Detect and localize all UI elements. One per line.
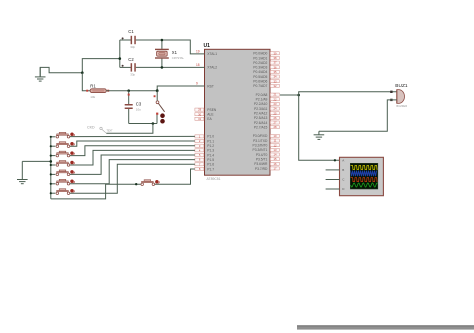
push button key 8 <box>141 180 160 186</box>
svg-text:ALE: ALE <box>207 113 214 117</box>
node bus junction row 7 <box>50 192 52 194</box>
wire button 3 to P1.2 staircase <box>70 146 195 156</box>
svg-text:R1: R1 <box>90 83 96 88</box>
ground GND3 <box>314 131 325 139</box>
wire C3 bottom to switch bottom <box>129 123 157 125</box>
svg-text:XTAL2: XTAL2 <box>207 66 217 70</box>
wire button 7 to P1.6 staircase <box>70 164 195 193</box>
pin P2.1/A9 (pin 22) <box>256 98 268 102</box>
pin P3.1/TXD (pin 11) <box>253 139 268 143</box>
svg-text:14: 14 <box>274 153 277 157</box>
pin P1.4 (pin 5) <box>207 153 214 157</box>
svg-text:10k: 10k <box>90 95 95 99</box>
svg-text:P1.1: P1.1 <box>207 139 214 143</box>
node crystal top junction <box>161 39 164 42</box>
pin P1.1 (pin 2) <box>207 139 214 143</box>
svg-text:33p: 33p <box>130 73 135 77</box>
svg-text:P2.5/A13: P2.5/A13 <box>254 116 268 120</box>
wire rail down to R1 <box>82 73 90 91</box>
wire bus to button 4 left terminal <box>51 164 56 166</box>
scrollbar bottom gray bar <box>297 325 474 329</box>
pin P0.4/AD4 (pin 35) <box>253 70 267 74</box>
svg-text:9: 9 <box>196 81 198 85</box>
push button key 6 <box>56 179 75 185</box>
svg-text:P0.2/AD2: P0.2/AD2 <box>253 61 267 65</box>
wire extra button to P1.7 <box>155 169 195 184</box>
svg-text:TEXT: TEXT <box>107 130 114 133</box>
capacitor C1 <box>120 36 136 44</box>
pin P2.5/A13 (pin 26) <box>254 116 268 120</box>
crystal X1 <box>155 40 169 67</box>
node switch tap on reset wire <box>156 89 159 92</box>
pin P3.7/RD (pin 17) <box>255 167 268 171</box>
node buzzer-scope junction <box>297 94 300 97</box>
svg-text:31: 31 <box>198 117 201 121</box>
waveform channel C red square <box>351 178 378 182</box>
waveform channel D green sine <box>351 183 378 187</box>
svg-text:33: 33 <box>274 79 277 83</box>
svg-text:C3: C3 <box>136 101 142 106</box>
svg-text:39: 39 <box>274 51 277 55</box>
node rail T-junction <box>81 71 84 74</box>
node C3 tap on reset wire <box>127 89 130 92</box>
pin P3.2/INT0 (pin 12) <box>253 144 268 148</box>
node crystal bottom junction <box>161 66 164 69</box>
pin P2.4/A12 (pin 25) <box>254 112 268 116</box>
switch SW reset <box>154 91 165 124</box>
pin RST (pin 9) <box>196 81 214 88</box>
pin P3.6/WR (pin 16) <box>254 162 268 166</box>
wire bus to button 2 left terminal <box>51 145 56 147</box>
svg-text:22: 22 <box>274 97 277 101</box>
push button key 1 <box>56 132 75 138</box>
node extra button left junction <box>135 183 137 185</box>
wire button 1 to P1.0 <box>70 135 195 137</box>
wire button 2 to P1.1 staircase <box>70 141 195 146</box>
svg-text:P0.7/AD7: P0.7/AD7 <box>253 84 267 88</box>
svg-text:P2.2/A10: P2.2/A10 <box>254 102 268 106</box>
svg-text:P2.1/A9: P2.1/A9 <box>256 98 268 102</box>
node bus junction row 6 <box>50 183 52 185</box>
wire reset node step up to RST pin <box>157 86 204 91</box>
wire bus to button 1 left terminal <box>51 136 56 138</box>
pin P0.1/AD1 (pin 38) <box>253 56 267 60</box>
svg-text:33p: 33p <box>130 45 135 49</box>
svg-text:18: 18 <box>196 63 200 67</box>
svg-text:U1: U1 <box>204 43 211 49</box>
svg-text:P2.0/A8: P2.0/A8 <box>256 93 268 97</box>
node bus junction row 4 <box>50 164 52 166</box>
wire keypad ground bus vertical <box>50 137 52 199</box>
svg-text:35: 35 <box>274 70 277 74</box>
pin scope channel D <box>326 188 340 190</box>
pin P3.4/T0 (pin 14) <box>256 153 268 157</box>
svg-text:P1.5: P1.5 <box>207 158 214 162</box>
svg-text:AT89C51: AT89C51 <box>207 177 221 181</box>
capacitor C2 <box>120 63 136 71</box>
wire bus to button 6 left terminal <box>51 183 56 185</box>
svg-text:10: 10 <box>274 134 277 138</box>
svg-text:32: 32 <box>274 84 277 88</box>
svg-text:P3.5/T1: P3.5/T1 <box>256 157 268 161</box>
pin P1.0 (pin 1) <box>207 135 214 139</box>
oscilloscope screen <box>350 163 378 189</box>
wire bus to button 5 left terminal <box>51 173 56 175</box>
node CKD terminal and label <box>87 126 113 134</box>
oscilloscope body <box>340 157 384 195</box>
svg-text:P1.0: P1.0 <box>207 135 214 139</box>
pin P2.0/A8 (pin 21) <box>256 93 268 97</box>
svg-text:29: 29 <box>198 108 201 112</box>
svg-text:25: 25 <box>274 111 277 115</box>
push button key 2 <box>56 142 75 148</box>
pin P1.7 (pin 8) <box>207 167 214 171</box>
svg-text:19: 19 <box>196 49 200 53</box>
push button key 3 <box>56 151 75 157</box>
svg-text:13: 13 <box>274 148 277 152</box>
svg-text:27: 27 <box>274 121 277 125</box>
pin P2.2/A10 (pin 23) <box>254 102 268 106</box>
wire bus to button 7 left terminal <box>51 192 56 194</box>
pin P3.0/RXD (pin 10) <box>253 134 268 138</box>
svg-text:PSEN: PSEN <box>207 108 217 112</box>
buzzer BUZ1 <box>390 90 404 104</box>
svg-text:BUZZER: BUZZER <box>396 104 407 108</box>
svg-text:P3.6/WR: P3.6/WR <box>254 162 268 166</box>
wire junction up and right to buzzer <box>299 92 397 95</box>
svg-text:P3.1/TXD: P3.1/TXD <box>253 139 268 143</box>
svg-text:CKD: CKD <box>87 126 95 130</box>
node rail-caps junction <box>119 57 122 60</box>
pin P0.6/AD6 (pin 33) <box>253 80 267 84</box>
svg-text:P2.7/A15: P2.7/A15 <box>254 125 268 129</box>
svg-text:21: 21 <box>274 93 277 97</box>
svg-text:30: 30 <box>198 112 201 116</box>
node bus junction row 2 <box>50 145 52 147</box>
pin P0.3/AD3 (pin 36) <box>253 66 267 70</box>
node scope A pin dot <box>334 159 336 161</box>
push button key 5 <box>56 170 75 176</box>
pin P1.5 (pin 6) <box>207 158 214 162</box>
ground GND1 <box>35 67 46 81</box>
wire bus to button 3 left terminal <box>51 155 56 157</box>
pin P3.5/T1 (pin 15) <box>256 157 268 161</box>
waveform channel A yellow square <box>351 166 378 170</box>
pin P1.6 (pin 7) <box>207 163 214 167</box>
node CKD branch junction <box>152 122 155 125</box>
pin PSEN (pin 29) <box>207 108 217 112</box>
svg-text:P3.2/INT0: P3.2/INT0 <box>253 144 268 148</box>
svg-text:A: A <box>342 159 344 163</box>
svg-text:10u: 10u <box>136 108 141 112</box>
pin EA (pin 31) <box>207 117 212 121</box>
pin scope channel B <box>326 169 340 171</box>
svg-text:16: 16 <box>274 162 277 166</box>
wire button 5 to P1.4 staircase <box>70 155 195 174</box>
pin P0.5/AD5 (pin 34) <box>253 75 267 79</box>
wire keypad ground tap <box>22 160 51 162</box>
svg-text:P3.4/T0: P3.4/T0 <box>256 153 268 157</box>
svg-text:P0.0/AD0: P0.0/AD0 <box>253 52 267 56</box>
svg-text:15: 15 <box>274 157 277 161</box>
capacitor C3 <box>125 91 133 124</box>
node bus junction row 3 <box>50 155 52 157</box>
node ground tap junction <box>50 160 53 163</box>
wire left vertical joining C1 and C2 <box>119 40 121 67</box>
ground symbol keypad with stem <box>21 161 23 170</box>
svg-text:34: 34 <box>274 75 277 79</box>
wire CKD label to reset-capacitor node <box>106 124 152 134</box>
svg-text:P3.0/RXD: P3.0/RXD <box>253 134 268 138</box>
push button key 7 <box>56 189 75 195</box>
svg-text:24: 24 <box>274 107 277 111</box>
pin XTAL2 (pin 18) <box>196 63 217 70</box>
pin P2.3/A11 (pin 24) <box>254 107 267 111</box>
svg-text:P1.4: P1.4 <box>207 153 214 157</box>
svg-text:P3.7/RD: P3.7/RD <box>255 167 268 171</box>
svg-text:P1.2: P1.2 <box>207 144 214 148</box>
svg-text:P0.6/AD6: P0.6/AD6 <box>253 80 267 84</box>
wire XTAL2 net (C2 to XTAL2) <box>136 66 205 68</box>
svg-text:RST: RST <box>207 84 214 88</box>
svg-text:P0.5/AD5: P0.5/AD5 <box>253 75 267 79</box>
svg-text:17: 17 <box>274 167 277 171</box>
pin P1.2 (pin 3) <box>207 144 214 148</box>
wire button 6 to P1.5 staircase <box>70 160 195 184</box>
wire P2.0 to buzzer/scope node <box>280 94 299 96</box>
svg-text:P0.4/AD4: P0.4/AD4 <box>253 70 267 74</box>
svg-text:C1: C1 <box>128 29 134 34</box>
pin P2.6/A14 (pin 27) <box>254 121 268 125</box>
svg-text:36: 36 <box>274 65 277 69</box>
ground GND2 <box>17 170 28 184</box>
pin XTAL1 (pin 19) <box>196 49 217 56</box>
wire XTAL1 net (C1 to XTAL1) <box>136 40 205 54</box>
node bus junction row 1 <box>50 136 52 138</box>
wire buzzer bottom to ground <box>319 100 397 131</box>
svg-text:P3.3/INT1: P3.3/INT1 <box>253 148 268 152</box>
svg-text:P1.3: P1.3 <box>207 149 214 153</box>
svg-text:P2.4/A12: P2.4/A12 <box>254 112 268 116</box>
svg-text:P1.7: P1.7 <box>207 167 214 171</box>
pin P3.3/INT1 (pin 13) <box>253 148 268 152</box>
svg-text:CRYSTAL: CRYSTAL <box>172 56 185 60</box>
svg-text:P0.3/AD3: P0.3/AD3 <box>253 66 267 70</box>
svg-text:B: B <box>342 168 344 172</box>
svg-text:P2.6/A14: P2.6/A14 <box>254 121 268 125</box>
waveform channel B blue dense <box>351 171 377 177</box>
svg-text:12: 12 <box>274 143 277 147</box>
wire button 4 to P1.3 staircase <box>70 150 195 165</box>
microcontroller U1 AT89C51 body <box>205 49 271 175</box>
pin ALE (pin 30) <box>207 113 214 117</box>
ground symbol top-left with riser <box>40 67 82 77</box>
pin P2.7/A15 (pin 28) <box>254 125 268 129</box>
pin scope channel C <box>326 179 340 181</box>
push button key 4 <box>56 161 75 167</box>
svg-text:28: 28 <box>274 125 277 129</box>
pin P0.2/AD2 (pin 37) <box>253 61 267 65</box>
svg-text:38: 38 <box>274 56 277 60</box>
svg-text:BUZ1: BUZ1 <box>395 83 408 89</box>
svg-text:P0.1/AD1: P0.1/AD1 <box>253 56 267 60</box>
svg-text:26: 26 <box>274 116 277 120</box>
pin P0.7/AD7 (pin 32) <box>253 84 267 88</box>
svg-text:XTAL1: XTAL1 <box>207 52 217 56</box>
pin P1.3 (pin 4) <box>207 149 214 153</box>
wire junction down to oscilloscope channel A <box>299 95 340 160</box>
svg-text:C2: C2 <box>128 57 134 62</box>
wire rail up to C1/C2 vertical <box>82 59 120 73</box>
node bus junction row 5 <box>50 173 52 175</box>
svg-text:P2.3/A11: P2.3/A11 <box>254 107 267 111</box>
resistor R1 <box>86 89 109 93</box>
svg-text:X1: X1 <box>172 50 178 55</box>
svg-text:37: 37 <box>274 61 277 65</box>
pin P0.0/AD0 (pin 39) <box>253 52 267 56</box>
svg-text:P1.6: P1.6 <box>207 163 214 167</box>
svg-text:23: 23 <box>274 102 277 106</box>
wire R1 to reset node <box>106 90 157 92</box>
svg-text:11: 11 <box>274 139 277 143</box>
wire keypad bus bottom route to extra button <box>51 184 141 199</box>
